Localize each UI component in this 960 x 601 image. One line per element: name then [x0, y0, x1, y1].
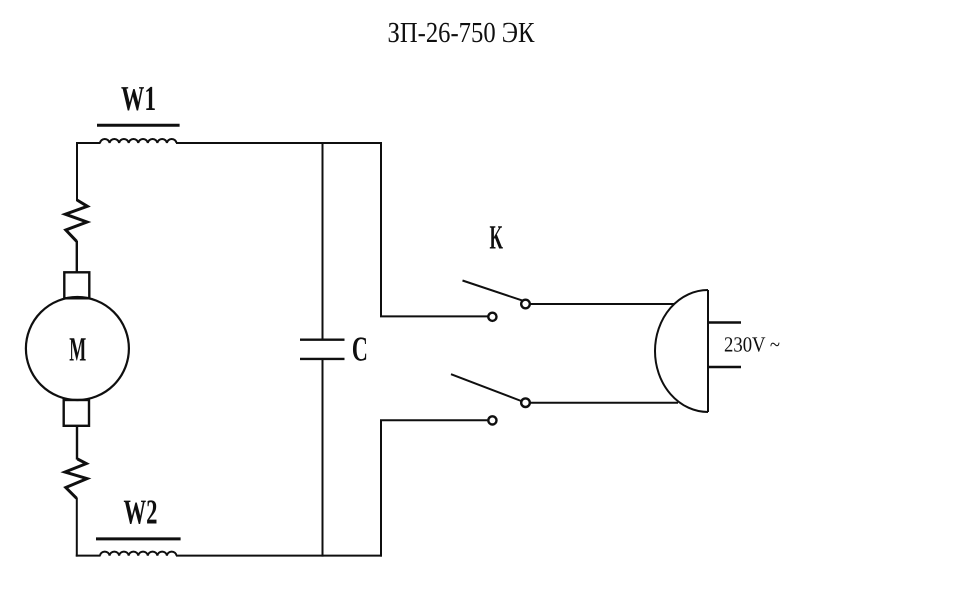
switch K lower blade	[451, 374, 523, 401]
motor M body	[26, 297, 129, 400]
underline of W2	[96, 537, 181, 540]
svg-text:230V ~: 230V ~	[724, 333, 780, 357]
resistor upper (brush resistor)	[65, 200, 87, 241]
switch K upper pole contact	[488, 313, 496, 321]
wire bottom rail left segment	[76, 555, 101, 557]
svg-text:K: K	[489, 220, 503, 257]
motor lower brush	[64, 400, 89, 426]
wire left vertical upper	[76, 142, 78, 201]
wire resistor to upper brush	[76, 241, 78, 273]
svg-text:ЗП-26-750 ЭК: ЗП-26-750 ЭК	[388, 17, 536, 49]
svg-text:W2: W2	[124, 493, 158, 532]
svg-text:W1: W1	[121, 79, 156, 118]
switch K upper blade contact	[521, 300, 530, 309]
resistor lower (brush resistor)	[65, 459, 87, 498]
switch K lower pole contact	[488, 416, 496, 424]
plug flat edge	[707, 290, 709, 412]
switch K lower blade contact	[521, 398, 530, 407]
switch K upper blade	[463, 281, 523, 301]
capacitor branch wire lower	[322, 359, 324, 557]
plug prong upper	[708, 321, 741, 323]
svg-text:M: M	[69, 331, 86, 368]
inductor W2	[100, 552, 176, 556]
wire lower blade to plug	[530, 402, 678, 404]
wire bottom rail right segment	[176, 555, 382, 557]
underline of W1	[97, 124, 180, 127]
svg-text:C: C	[352, 329, 368, 368]
capacitor C bottom plate	[300, 358, 345, 360]
wire upper blade to plug	[530, 303, 674, 305]
plug prong lower	[708, 366, 741, 368]
wire right vertical upper (to switch pole)	[381, 142, 488, 316]
capacitor branch wire upper	[322, 142, 324, 340]
wire left vertical lower	[76, 498, 78, 557]
wire top rail left segment	[76, 142, 101, 144]
wire lower brush to resistor	[76, 425, 78, 460]
inductor W1	[100, 139, 176, 143]
motor upper brush	[64, 272, 89, 298]
wire right vertical lower (to switch pole)	[381, 420, 487, 556]
plug body arc	[655, 290, 708, 412]
wire top rail right segment	[176, 142, 382, 144]
capacitor C top plate	[300, 339, 345, 341]
